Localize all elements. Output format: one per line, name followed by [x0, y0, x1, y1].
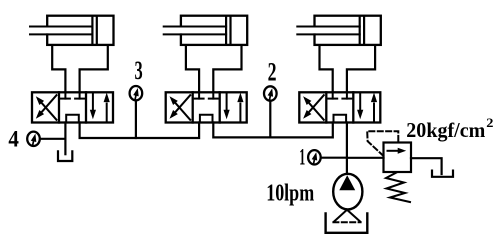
valve C2 centre position: P-T bypass: [200, 115, 213, 122]
valve C3 right position: parallel arrows: [357, 93, 377, 122]
pressure gauge 1: [308, 150, 321, 164]
cylinder C1 body: [47, 16, 113, 45]
relief valve body: [384, 143, 412, 173]
wire: valve C2 to valve C3 (series line): [213, 123, 332, 138]
cylinder C3 piston: [360, 17, 364, 44]
pump P1 (fixed displacement): [333, 174, 362, 210]
tank symbol under valve C1: [58, 151, 72, 161]
svg-text:1: 1: [299, 145, 305, 170]
suction strainer: [333, 210, 360, 222]
cylinder C2 piston rod: [164, 27, 226, 35]
pressure gauge 4: [27, 132, 40, 146]
wire: cylinder C1 cap-side port to valve B port: [80, 46, 108, 93]
directional valve C2 body (4/3 way, 3 position): [166, 92, 247, 122]
cylinder C3 body: [315, 16, 381, 45]
valve C1 left position: crossed arrows: [36, 95, 57, 120]
wire: cylinder C1 rod-side port to valve A port: [52, 46, 65, 93]
valve C2 box dividers: [193, 92, 220, 122]
wire: valve C1 T-port down to tank: [64, 123, 66, 155]
valve C3 centre position: blocked A/B ports: [328, 93, 351, 98]
valve C3 centre position: P-T bypass: [334, 115, 347, 122]
wire: pump to valve C3 riser: [346, 123, 348, 174]
drain tank symbol: [432, 171, 453, 177]
wire: valve C1 P-port to valve C2 (series line): [80, 123, 200, 139]
relief valve flow arrow: [388, 148, 407, 154]
wire: gauge 1 to pump riser: [322, 157, 347, 159]
valve C1 centre position: P-T bypass: [66, 115, 79, 122]
wire: cylinder C2 rod-side port to valve A port: [186, 46, 199, 93]
svg-text:10lpm: 10lpm: [266, 181, 314, 207]
wire: pump riser to relief valve inlet: [347, 157, 384, 159]
cylinder C1 piston rod: [30, 27, 92, 35]
svg-text:20kgf/cm: 20kgf/cm: [406, 118, 485, 142]
valve C2 centre position: blocked A/B ports: [195, 93, 218, 98]
wire: gauge 2 stem: [269, 101, 271, 138]
relief valve spring: [386, 173, 410, 203]
cylinder C3 piston rod: [297, 27, 359, 35]
wire: cylinder C2 cap-side port to valve B port: [213, 46, 241, 93]
relief valve pilot line (dashed): [367, 131, 398, 156]
valve C2 left position: crossed arrows: [170, 95, 191, 120]
cylinder C2 body: [181, 16, 247, 45]
valve C1 right position: parallel arrows: [90, 93, 110, 122]
pressure gauge 2: [264, 86, 277, 100]
svg-text:2: 2: [486, 115, 493, 130]
svg-text:4: 4: [8, 127, 19, 152]
wire: relief valve outlet to drain tank: [411, 158, 442, 174]
wire: cylinder C3 cap-side port to valve B port: [347, 46, 375, 93]
valve C3 left position: crossed arrows: [303, 95, 324, 120]
wire: gauge 3 stem: [135, 100, 137, 138]
label: relief pressure 20kgf/cm2: [406, 115, 493, 142]
cylinder C1 piston: [92, 17, 96, 44]
svg-text:2: 2: [268, 58, 277, 87]
valve C1 centre position: blocked A/B ports: [61, 93, 84, 98]
reservoir tank under pump: [326, 213, 368, 232]
valve C3 box dividers: [326, 92, 353, 122]
cylinder C2 piston: [226, 17, 230, 44]
directional valve C3 body (4/3 way, 3 position): [299, 92, 380, 122]
wire: gauge 4 to valve C1 tank line: [41, 138, 66, 140]
valve C2 right position: parallel arrows: [224, 93, 244, 122]
directional valve C1 body (4/3 way, 3 position): [32, 92, 113, 122]
wire: cylinder C3 rod-side port to valve A port: [320, 46, 333, 93]
svg-text:3: 3: [135, 56, 143, 85]
valve C1 box dividers: [59, 92, 86, 122]
pressure gauge 3: [130, 86, 143, 100]
